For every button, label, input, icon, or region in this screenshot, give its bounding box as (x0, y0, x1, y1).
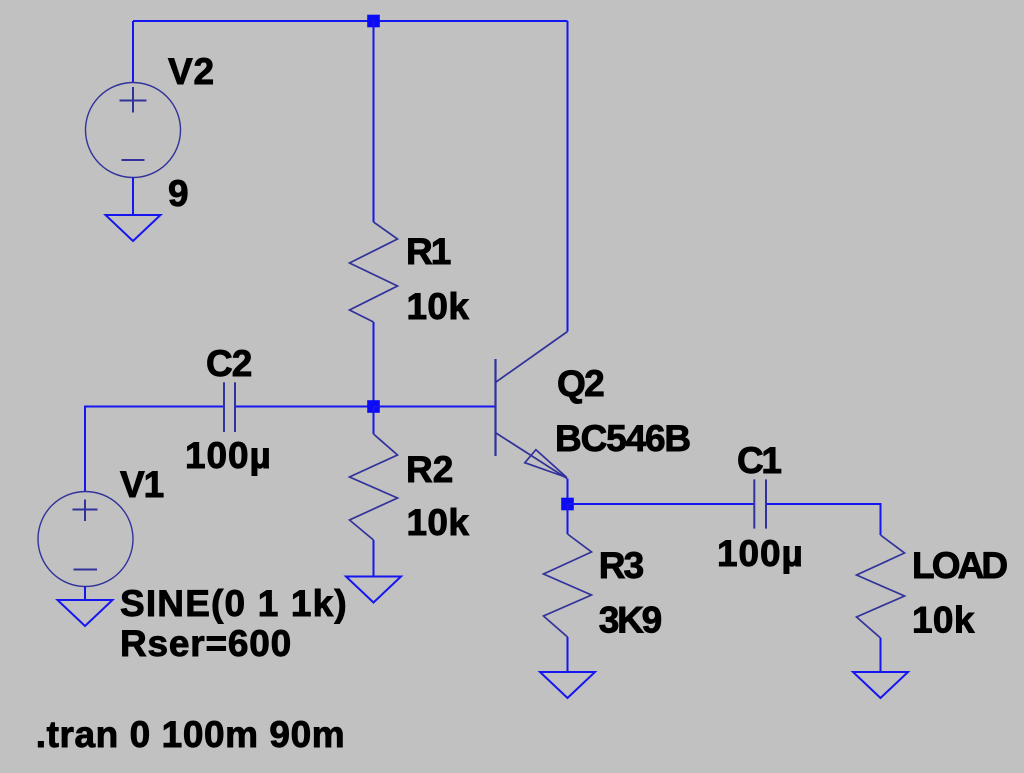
svg-text:Q2: Q2 (557, 363, 604, 404)
svg-text:V2: V2 (168, 51, 215, 92)
svg-text:.tran 0 100m 90m: .tran 0 100m 90m (36, 714, 345, 755)
wire LOAD to ground (880, 638, 882, 672)
svg-text:BC546B: BC546B (555, 418, 690, 459)
wire junction to R1 (373, 21, 375, 222)
node junction top bus (367, 15, 380, 28)
wire Q2 emitter to node E (567, 479, 569, 505)
ground under R3 (540, 672, 595, 698)
wire C1 to LOAD (767, 504, 881, 535)
svg-text:10k: 10k (407, 286, 470, 327)
svg-text:R2: R2 (406, 449, 453, 490)
wire node E to R3 (567, 504, 569, 534)
svg-text:10k: 10k (912, 600, 975, 641)
wire C2 to node B (236, 406, 374, 408)
svg-text:C2: C2 (206, 343, 252, 384)
wire V1 to C2 (85, 407, 224, 492)
svg-text:V1: V1 (120, 464, 164, 505)
transistor Q2 (496, 332, 568, 479)
ground under R2 (346, 577, 401, 603)
node B (base divider junction) (367, 400, 380, 413)
resistor R3 (544, 534, 592, 637)
svg-text:9: 9 (168, 173, 189, 214)
resistor R1 (350, 222, 398, 322)
svg-text:LOAD: LOAD (912, 545, 1007, 586)
svg-text:3K9: 3K9 (599, 600, 662, 641)
ground under V2 (106, 215, 161, 241)
collector diagonal (496, 332, 568, 383)
capacitor C2 (224, 382, 235, 432)
svg-text:10k: 10k (407, 502, 470, 543)
emitter arrow (525, 450, 567, 478)
wire node E to C1 (568, 503, 754, 505)
wire top bus (133, 20, 568, 22)
wire R1 to node B (373, 322, 375, 407)
svg-text:R3: R3 (599, 545, 644, 586)
wire R2 to ground (373, 540, 375, 577)
svg-text:SINE(0 1 1k): SINE(0 1 1k) (120, 583, 348, 624)
resistor R2 (350, 434, 398, 540)
wire V2 top lead (132, 21, 134, 83)
wire R3 to ground (567, 637, 569, 672)
svg-text:100µ: 100µ (717, 533, 804, 574)
capacitor C1 (754, 479, 766, 528)
svg-text:R1: R1 (406, 231, 451, 272)
voltage source V2 (86, 83, 181, 178)
svg-text:Rser=600: Rser=600 (120, 623, 292, 664)
ground under V1 (58, 600, 113, 626)
resistor LOAD (857, 535, 905, 638)
node E (emitter junction) (561, 498, 574, 511)
emitter diagonal (496, 433, 567, 479)
voltage source V1 (38, 492, 133, 587)
base bar (494, 359, 496, 456)
svg-text:100µ: 100µ (185, 435, 272, 476)
wire Q2 collector up (567, 21, 569, 332)
svg-text:C1: C1 (737, 440, 781, 481)
wire V2 bottom lead (132, 178, 134, 216)
wire node B to R2 (373, 407, 375, 435)
ground under LOAD (853, 672, 908, 698)
wire node B to Q2 base (374, 406, 496, 408)
wire V1 bottom lead (84, 587, 86, 601)
